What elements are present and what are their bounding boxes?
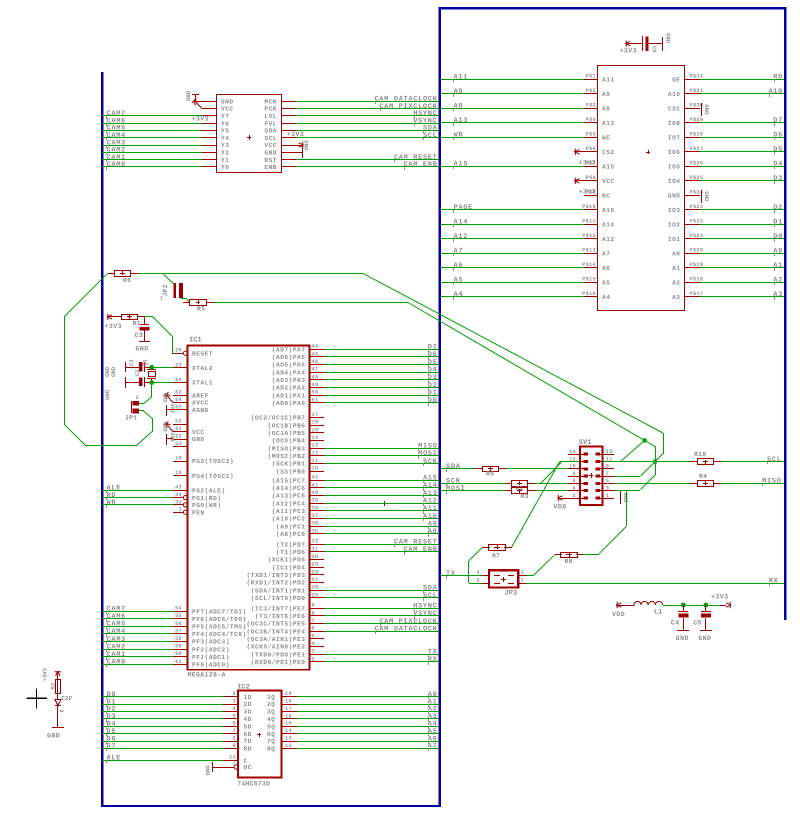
svg-text:A8: A8 bbox=[602, 106, 610, 113]
svg-text:PAGE: PAGE bbox=[454, 204, 473, 212]
svg-text:14: 14 bbox=[569, 449, 576, 455]
svg-text:58: 58 bbox=[175, 636, 182, 642]
svg-text:P$15: P$15 bbox=[582, 277, 596, 283]
svg-text:CAM DATACLOCK: CAM DATACLOCK bbox=[374, 625, 437, 633]
svg-text:45: 45 bbox=[312, 351, 319, 357]
svg-text:SCL: SCL bbox=[767, 456, 782, 464]
svg-text:(TXD1/INT3)PD3: (TXD1/INT3)PD3 bbox=[247, 572, 306, 579]
svg-text:23: 23 bbox=[175, 362, 182, 368]
svg-text:6Q: 6Q bbox=[267, 731, 275, 738]
svg-text:R10: R10 bbox=[694, 451, 706, 458]
svg-text:3: 3 bbox=[521, 570, 524, 576]
svg-text:GND: GND bbox=[665, 33, 672, 44]
svg-text:(A13)PC5: (A13)PC5 bbox=[272, 493, 306, 500]
svg-text:P$13: P$13 bbox=[582, 248, 596, 254]
svg-text:(AD1)PA1: (AD1)PA1 bbox=[272, 392, 306, 399]
svg-text:+3V3: +3V3 bbox=[287, 131, 304, 138]
svg-text:(A14)PC6: (A14)PC6 bbox=[272, 485, 306, 492]
svg-text:GND: GND bbox=[303, 140, 310, 151]
svg-text:(AD6)PA6: (AD6)PA6 bbox=[272, 354, 306, 361]
svg-text:SCL: SCL bbox=[264, 135, 277, 142]
svg-text:WR: WR bbox=[454, 132, 464, 140]
svg-text:IO8: IO8 bbox=[668, 120, 681, 127]
svg-text:56: 56 bbox=[175, 621, 182, 627]
svg-text:(A8)PC0: (A8)PC0 bbox=[276, 531, 306, 538]
svg-text:(A10)PC2: (A10)PC2 bbox=[272, 516, 306, 523]
svg-text:(SCL/INT0)PD0: (SCL/INT0)PD0 bbox=[251, 595, 306, 602]
svg-text:A12: A12 bbox=[602, 236, 615, 243]
svg-text:17: 17 bbox=[312, 412, 319, 418]
svg-text:A5: A5 bbox=[454, 277, 464, 285]
svg-text:PF7(ADC7/TDI): PF7(ADC7/TDI) bbox=[192, 608, 247, 615]
svg-text:PF5(ADC5/TMS): PF5(ADC5/TMS) bbox=[192, 624, 247, 631]
svg-text:Q1: Q1 bbox=[142, 359, 149, 366]
svg-text:P$4: P$4 bbox=[586, 117, 596, 123]
svg-text:1: 1 bbox=[233, 762, 236, 768]
svg-text:IO4: IO4 bbox=[668, 178, 681, 185]
svg-text:2D: 2D bbox=[244, 701, 252, 708]
svg-text:IC1: IC1 bbox=[189, 337, 202, 345]
svg-text:38: 38 bbox=[312, 505, 319, 511]
svg-text:7: 7 bbox=[312, 618, 315, 624]
svg-text:(AD7)PA7: (AD7)PA7 bbox=[272, 346, 306, 353]
svg-text:R7: R7 bbox=[492, 552, 500, 559]
svg-text:R5: R5 bbox=[197, 305, 205, 312]
svg-text:5: 5 bbox=[606, 478, 609, 484]
svg-text:C2P: C2P bbox=[62, 695, 73, 702]
svg-text:8: 8 bbox=[233, 736, 236, 742]
svg-text:A6: A6 bbox=[602, 265, 610, 272]
svg-text:33: 33 bbox=[175, 499, 182, 505]
svg-text:CS2: CS2 bbox=[602, 149, 615, 156]
svg-text:PG4(TOSC1): PG4(TOSC1) bbox=[192, 473, 234, 480]
svg-text:P$14: P$14 bbox=[582, 262, 596, 268]
svg-text:PG0(WR): PG0(WR) bbox=[192, 502, 222, 509]
svg-text:P$16: P$16 bbox=[582, 291, 596, 297]
svg-text:A13: A13 bbox=[602, 120, 615, 127]
svg-text:(IC3/INT7)PE7: (IC3/INT7)PE7 bbox=[251, 605, 306, 612]
svg-text:8: 8 bbox=[312, 610, 315, 616]
svg-text:PG1(RD): PG1(RD) bbox=[192, 495, 222, 502]
svg-text:RST: RST bbox=[264, 157, 277, 164]
svg-text:P$11: P$11 bbox=[582, 219, 596, 225]
svg-text:(OC2/OC1C)PB7: (OC2/OC1C)PB7 bbox=[251, 415, 306, 422]
svg-text:10: 10 bbox=[569, 464, 576, 470]
svg-text:4: 4 bbox=[233, 706, 236, 712]
svg-text:25: 25 bbox=[312, 592, 319, 598]
svg-text:D: D bbox=[60, 709, 66, 712]
svg-text:VCC: VCC bbox=[602, 178, 615, 185]
svg-text:TX: TX bbox=[446, 570, 456, 578]
svg-text:(A12)PC4: (A12)PC4 bbox=[272, 500, 306, 507]
svg-text:PF0(ADC0): PF0(ADC0) bbox=[192, 662, 230, 669]
svg-text:MCK: MCK bbox=[264, 98, 277, 105]
svg-text:Y7: Y7 bbox=[221, 113, 229, 120]
svg-text:21: 21 bbox=[175, 426, 182, 432]
svg-text:PF4(ADC4/TCK): PF4(ADC4/TCK) bbox=[192, 631, 247, 638]
svg-text:RESET: RESET bbox=[192, 350, 213, 357]
svg-text:GND: GND bbox=[703, 191, 710, 202]
svg-text:60: 60 bbox=[175, 651, 182, 657]
svg-text:1: 1 bbox=[606, 493, 609, 499]
svg-text:IO1: IO1 bbox=[668, 236, 681, 243]
svg-text:22: 22 bbox=[175, 434, 182, 440]
svg-text:CAM0: CAM0 bbox=[107, 659, 126, 667]
svg-text:LVL: LVL bbox=[264, 113, 277, 120]
svg-text:A6: A6 bbox=[454, 262, 464, 270]
svg-text:(T2)PD7: (T2)PD7 bbox=[276, 541, 306, 548]
svg-text:GND: GND bbox=[110, 366, 117, 377]
svg-text:9: 9 bbox=[233, 743, 236, 749]
svg-text:46: 46 bbox=[312, 359, 319, 365]
svg-text:A12: A12 bbox=[454, 233, 469, 241]
svg-text:(AD3)PA3: (AD3)PA3 bbox=[272, 377, 306, 384]
svg-text:(AD4)PA4: (AD4)PA4 bbox=[272, 369, 306, 376]
svg-text:PF1(ADC1): PF1(ADC1) bbox=[192, 654, 230, 661]
svg-text:CAM ENB: CAM ENB bbox=[404, 161, 438, 169]
svg-text:13: 13 bbox=[312, 443, 319, 449]
svg-text:51: 51 bbox=[312, 397, 319, 403]
svg-text:A10: A10 bbox=[768, 88, 783, 96]
svg-text:+3V3: +3V3 bbox=[169, 429, 175, 442]
svg-text:MEGA128-A: MEGA128-A bbox=[188, 672, 226, 679]
svg-text:P$32: P$32 bbox=[690, 74, 704, 80]
svg-text:P$12: P$12 bbox=[582, 233, 596, 239]
svg-text:3: 3 bbox=[312, 649, 315, 655]
svg-text:R6: R6 bbox=[123, 277, 131, 284]
svg-text:+3V3: +3V3 bbox=[620, 48, 637, 55]
svg-text:26: 26 bbox=[312, 585, 319, 591]
svg-text:GND: GND bbox=[104, 389, 111, 400]
svg-text:2: 2 bbox=[573, 493, 576, 499]
svg-text:3D: 3D bbox=[244, 709, 252, 716]
svg-text:R1: R1 bbox=[133, 320, 141, 327]
svg-text:(SCK)PB1: (SCK)PB1 bbox=[272, 461, 306, 468]
svg-text:47: 47 bbox=[312, 367, 319, 373]
svg-text:R2: R2 bbox=[50, 682, 57, 689]
svg-text:A0: A0 bbox=[672, 251, 680, 258]
svg-text:5: 5 bbox=[233, 713, 236, 719]
svg-text:MISO: MISO bbox=[762, 478, 781, 486]
svg-text:1: 1 bbox=[521, 577, 524, 583]
svg-text:IO2: IO2 bbox=[668, 222, 681, 229]
svg-text:Y4: Y4 bbox=[221, 135, 229, 142]
svg-text:4: 4 bbox=[312, 641, 315, 647]
svg-text:(A15)PC7: (A15)PC7 bbox=[272, 477, 306, 484]
svg-text:VDD: VDD bbox=[612, 611, 625, 618]
svg-text:VDD: VDD bbox=[554, 504, 567, 511]
svg-text:C5: C5 bbox=[693, 620, 702, 627]
svg-text:16: 16 bbox=[312, 420, 319, 426]
svg-text:40: 40 bbox=[312, 490, 319, 496]
svg-text:IO6: IO6 bbox=[668, 149, 681, 156]
svg-text:OE: OE bbox=[672, 77, 680, 84]
svg-text:A1: A1 bbox=[672, 265, 680, 272]
svg-text:Y2: Y2 bbox=[221, 150, 229, 157]
svg-text:WR: WR bbox=[107, 499, 117, 507]
svg-text:2: 2 bbox=[476, 577, 479, 583]
svg-text:P$18: P$18 bbox=[690, 277, 704, 283]
svg-text:52: 52 bbox=[175, 419, 182, 425]
svg-text:7Q: 7Q bbox=[267, 738, 275, 745]
svg-text:A11: A11 bbox=[454, 74, 469, 82]
svg-text:C1: C1 bbox=[128, 359, 135, 366]
svg-text:1: 1 bbox=[160, 296, 163, 302]
svg-text:(AD5)PA5: (AD5)PA5 bbox=[272, 362, 306, 369]
svg-text:10: 10 bbox=[312, 466, 319, 472]
svg-text:16: 16 bbox=[285, 713, 292, 719]
svg-text:+3V3: +3V3 bbox=[105, 323, 122, 330]
svg-text:A4: A4 bbox=[602, 294, 610, 301]
svg-text:A7: A7 bbox=[602, 251, 610, 258]
svg-text:2: 2 bbox=[136, 395, 139, 401]
svg-text:2: 2 bbox=[312, 656, 315, 662]
svg-text:15: 15 bbox=[312, 427, 319, 433]
svg-text:9: 9 bbox=[312, 603, 315, 609]
svg-text:3: 3 bbox=[233, 699, 236, 705]
svg-text:A3: A3 bbox=[672, 294, 680, 301]
svg-text:P$3: P$3 bbox=[586, 103, 596, 109]
svg-text:R4: R4 bbox=[699, 473, 707, 480]
svg-text:RX: RX bbox=[769, 577, 779, 585]
svg-text:54: 54 bbox=[175, 606, 182, 612]
svg-text:13: 13 bbox=[606, 449, 613, 455]
svg-text:A15: A15 bbox=[602, 164, 615, 171]
svg-text:GND: GND bbox=[622, 493, 629, 504]
svg-text:48: 48 bbox=[312, 374, 319, 380]
svg-text:A15: A15 bbox=[454, 161, 469, 169]
svg-text:1Q: 1Q bbox=[267, 694, 275, 701]
svg-text:GND: GND bbox=[676, 635, 689, 642]
svg-text:XTAL1: XTAL1 bbox=[192, 380, 213, 387]
svg-text:(XCK1)PD5: (XCK1)PD5 bbox=[268, 557, 306, 564]
svg-text:+3V3: +3V3 bbox=[192, 116, 209, 123]
svg-text:ALE: ALE bbox=[107, 755, 122, 763]
svg-text:(SS)PB0: (SS)PB0 bbox=[276, 468, 306, 475]
svg-text:AVCC: AVCC bbox=[192, 400, 209, 407]
svg-text:D7: D7 bbox=[107, 743, 117, 751]
svg-text:24: 24 bbox=[175, 377, 182, 383]
svg-text:GND: GND bbox=[264, 150, 277, 157]
svg-text:5D: 5D bbox=[244, 723, 252, 730]
svg-text:8: 8 bbox=[573, 471, 576, 477]
svg-text:Y5: Y5 bbox=[221, 128, 229, 135]
svg-text:A2: A2 bbox=[672, 280, 680, 287]
svg-text:ENB: ENB bbox=[264, 164, 277, 171]
svg-text:(A11)PC3: (A11)PC3 bbox=[272, 508, 306, 515]
svg-text:32: 32 bbox=[312, 539, 319, 545]
svg-text:SCL: SCL bbox=[423, 592, 438, 600]
svg-text:IO7: IO7 bbox=[668, 135, 681, 142]
svg-text:+3V3: +3V3 bbox=[579, 159, 596, 166]
svg-text:7: 7 bbox=[233, 728, 236, 734]
svg-text:VCC: VCC bbox=[264, 142, 277, 149]
svg-text:19: 19 bbox=[175, 470, 182, 476]
svg-text:(OC3A/AIN1)PE3: (OC3A/AIN1)PE3 bbox=[247, 636, 306, 643]
svg-text:P$5: P$5 bbox=[586, 132, 596, 138]
svg-text:R3: R3 bbox=[521, 493, 529, 500]
svg-text:36: 36 bbox=[312, 521, 319, 527]
svg-text:PCK: PCK bbox=[264, 106, 277, 113]
svg-text:6: 6 bbox=[233, 721, 236, 727]
svg-text:2Q: 2Q bbox=[267, 701, 275, 708]
svg-text:(T3/INT6)PE6: (T3/INT6)PE6 bbox=[255, 613, 306, 620]
svg-text:(OC0)PB4: (OC0)PB4 bbox=[272, 438, 306, 445]
svg-text:(TXD0/PDO)PE1: (TXD0/PDO)PE1 bbox=[251, 651, 306, 658]
svg-text:GND: GND bbox=[221, 98, 234, 105]
svg-text:P$20: P$20 bbox=[690, 248, 704, 254]
svg-text:P$28: P$28 bbox=[690, 132, 704, 138]
svg-text:19: 19 bbox=[285, 691, 292, 697]
svg-text:C3: C3 bbox=[135, 332, 144, 339]
svg-text:4: 4 bbox=[573, 486, 576, 492]
svg-text:AGND: AGND bbox=[192, 407, 209, 414]
svg-text:D0: D0 bbox=[428, 397, 438, 405]
svg-text:FVL: FVL bbox=[264, 120, 277, 127]
svg-text:+3V3: +3V3 bbox=[711, 594, 728, 601]
svg-text:1: 1 bbox=[179, 507, 182, 513]
svg-text:P$22: P$22 bbox=[690, 219, 704, 225]
svg-text:P$26: P$26 bbox=[690, 161, 704, 167]
svg-text:GND: GND bbox=[136, 346, 149, 353]
svg-text:A16: A16 bbox=[602, 207, 615, 214]
svg-text:A4: A4 bbox=[454, 291, 464, 299]
svg-text:(RXD0/PDI)PE0: (RXD0/PDI)PE0 bbox=[251, 659, 306, 666]
svg-text:JP3: JP3 bbox=[505, 590, 518, 598]
svg-text:CS1: CS1 bbox=[668, 106, 681, 113]
svg-text:P$1: P$1 bbox=[586, 74, 596, 80]
svg-text:Y3: Y3 bbox=[221, 142, 229, 149]
svg-text:CAM0: CAM0 bbox=[107, 161, 126, 169]
svg-text:JP1: JP1 bbox=[125, 415, 137, 422]
svg-text:A9: A9 bbox=[454, 88, 464, 96]
svg-text:IC2: IC2 bbox=[237, 684, 250, 692]
svg-text:(XCK0/AIN0)PE2: (XCK0/AIN0)PE2 bbox=[247, 644, 306, 651]
svg-text:18: 18 bbox=[175, 456, 182, 462]
svg-text:15: 15 bbox=[285, 721, 292, 727]
svg-text:(OC3B/INT4)PE4: (OC3B/INT4)PE4 bbox=[247, 628, 306, 635]
svg-text:39: 39 bbox=[312, 498, 319, 504]
svg-text:17: 17 bbox=[285, 706, 292, 712]
svg-text:WE: WE bbox=[602, 135, 610, 142]
svg-text:61: 61 bbox=[175, 659, 182, 665]
svg-text:PF3(ADC3): PF3(ADC3) bbox=[192, 639, 230, 646]
svg-text:PF6(ADC6/TDO): PF6(ADC6/TDO) bbox=[192, 616, 247, 623]
svg-text:GND: GND bbox=[192, 436, 205, 443]
svg-text:63: 63 bbox=[175, 404, 182, 410]
svg-text:GND: GND bbox=[698, 635, 711, 642]
svg-text:27: 27 bbox=[312, 577, 319, 583]
svg-text:(A9)PC1: (A9)PC1 bbox=[276, 523, 306, 530]
svg-text:P$10: P$10 bbox=[582, 204, 596, 210]
svg-text:(MISO)PB3: (MISO)PB3 bbox=[268, 445, 306, 452]
svg-text:P$8: P$8 bbox=[586, 175, 596, 181]
svg-text:CAM ENB: CAM ENB bbox=[404, 546, 438, 554]
svg-text:2: 2 bbox=[233, 691, 236, 697]
svg-text:A9: A9 bbox=[602, 91, 610, 98]
svg-text:8D: 8D bbox=[244, 746, 252, 753]
svg-text:C6: C6 bbox=[651, 46, 658, 53]
svg-text:AREF: AREF bbox=[192, 392, 209, 399]
svg-text:L1: L1 bbox=[654, 609, 662, 617]
svg-text:13: 13 bbox=[285, 736, 292, 742]
svg-text:NC: NC bbox=[602, 193, 610, 200]
svg-text:A11: A11 bbox=[602, 77, 615, 84]
svg-text:(IC1)PD4: (IC1)PD4 bbox=[272, 564, 306, 571]
svg-text:A8: A8 bbox=[428, 528, 438, 536]
svg-text:11: 11 bbox=[229, 755, 236, 761]
svg-text:(MOSI)PB2: (MOSI)PB2 bbox=[268, 453, 306, 460]
svg-text:GND: GND bbox=[162, 422, 168, 432]
svg-text:GND: GND bbox=[47, 733, 60, 740]
svg-text:SDA: SDA bbox=[264, 128, 277, 135]
svg-text:GND: GND bbox=[185, 90, 192, 101]
svg-text:12: 12 bbox=[312, 450, 319, 456]
svg-text:3: 3 bbox=[606, 486, 609, 492]
svg-text:Y6: Y6 bbox=[221, 120, 229, 127]
svg-text:35: 35 bbox=[312, 528, 319, 534]
svg-text:(AD0)PA0: (AD0)PA0 bbox=[272, 400, 306, 407]
svg-text:43: 43 bbox=[175, 485, 182, 491]
svg-text:55: 55 bbox=[175, 613, 182, 619]
svg-text:41: 41 bbox=[312, 482, 319, 488]
svg-text:MOSI: MOSI bbox=[446, 485, 465, 493]
svg-text:P$2: P$2 bbox=[586, 88, 596, 94]
svg-text:GND: GND bbox=[205, 765, 212, 776]
svg-text:R8: R8 bbox=[565, 558, 573, 565]
svg-text:1D: 1D bbox=[244, 694, 252, 701]
svg-text:(T1)PD6: (T1)PD6 bbox=[276, 549, 306, 556]
svg-text:Y0: Y0 bbox=[221, 164, 229, 171]
svg-text:(AD2)PA2: (AD2)PA2 bbox=[272, 385, 306, 392]
svg-text:59: 59 bbox=[175, 644, 182, 650]
svg-text:PG3(TOSC2): PG3(TOSC2) bbox=[192, 458, 234, 465]
svg-text:50: 50 bbox=[312, 390, 319, 396]
svg-text:C4: C4 bbox=[671, 620, 680, 627]
svg-text:XTAL2: XTAL2 bbox=[192, 365, 213, 372]
svg-text:A14: A14 bbox=[602, 222, 615, 229]
svg-text:(SDA/INT1)PD1: (SDA/INT1)PD1 bbox=[251, 587, 306, 594]
svg-text:64: 64 bbox=[175, 397, 182, 403]
svg-text:7D: 7D bbox=[244, 738, 252, 745]
svg-text:PEN: PEN bbox=[192, 509, 205, 516]
svg-text:+3V3: +3V3 bbox=[169, 400, 175, 413]
svg-text:(OC1A)PB5: (OC1A)PB5 bbox=[268, 430, 306, 437]
svg-text:74HC573D: 74HC573D bbox=[237, 781, 270, 788]
svg-text:34: 34 bbox=[175, 492, 182, 498]
svg-text:14: 14 bbox=[312, 435, 319, 441]
svg-text:44: 44 bbox=[312, 344, 319, 350]
svg-text:IO3: IO3 bbox=[668, 207, 681, 214]
svg-text:30: 30 bbox=[312, 554, 319, 560]
svg-text:18: 18 bbox=[285, 699, 292, 705]
svg-text:9: 9 bbox=[606, 464, 609, 470]
svg-text:A8: A8 bbox=[454, 103, 464, 111]
svg-text:(OC3C/INT5)PE5: (OC3C/INT5)PE5 bbox=[247, 621, 306, 628]
svg-text:12: 12 bbox=[285, 743, 292, 749]
svg-text:3Q: 3Q bbox=[267, 709, 275, 716]
svg-text:VCC: VCC bbox=[221, 106, 234, 113]
svg-text:GND: GND bbox=[668, 193, 681, 200]
svg-text:GND: GND bbox=[703, 104, 710, 115]
svg-text:42: 42 bbox=[312, 475, 319, 481]
svg-text:+3V3: +3V3 bbox=[42, 667, 49, 681]
svg-text:A7: A7 bbox=[428, 743, 438, 751]
svg-text:C2: C2 bbox=[134, 369, 141, 376]
svg-text:+3V3: +3V3 bbox=[579, 188, 596, 195]
svg-text:RX: RX bbox=[428, 656, 438, 664]
svg-text:6: 6 bbox=[312, 626, 315, 632]
